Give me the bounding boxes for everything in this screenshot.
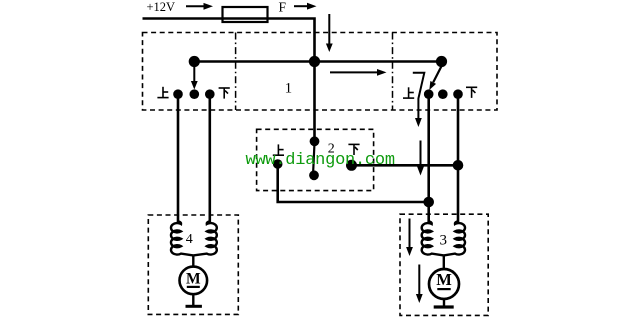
wire: left switch 下 contact down to coil: [209, 94, 212, 223]
wire: left switch 上 contact down to coil: [177, 94, 180, 223]
flow arrow A9 (down, in box 3): [416, 265, 423, 304]
label 上 (right switch): [403, 87, 414, 98]
switch 2 bottom contact: [309, 170, 319, 180]
switch 2 下 contact: [346, 160, 357, 171]
node: right pivot: [436, 56, 447, 67]
svg-text:F: F: [279, 0, 287, 14]
wire: switch 2 上 contact down then right to node (428.7,201.7): [278, 164, 429, 202]
coil left of motor 4: [171, 222, 193, 256]
coil left of motor 3: [422, 222, 444, 256]
flow arrow A7 (down, above box 3): [417, 141, 424, 176]
wire: right switch 下 contact down to coil: [457, 94, 460, 223]
svg-text:www.diangon.com: www.diangon.com: [246, 151, 395, 170]
motor M3: [429, 269, 459, 299]
label 上 (switch 2): [273, 144, 284, 155]
svg-text:M: M: [186, 271, 201, 288]
divider (dash-dot) left: [235, 33, 237, 111]
label 下 (left switch): [219, 88, 230, 99]
wire: right switch 上 contact down to coil: [427, 94, 430, 223]
wire: main bus at y=61.5: [194, 60, 441, 63]
ground (motor 3): [434, 305, 454, 308]
label 下 (right switch): [466, 87, 477, 98]
label 下 (switch 2): [348, 144, 359, 155]
svg-text:3: 3: [439, 233, 447, 249]
flow arrow A8 (down, in box 3): [406, 219, 413, 257]
svg-text:M: M: [436, 270, 452, 289]
wire: coil joint to motor 4: [192, 255, 194, 266]
switch 1 right contacts: [424, 89, 434, 99]
label 上 (left switch): [157, 87, 168, 98]
flow arrow A4 (rightwards under bus): [330, 69, 387, 76]
flow path "7" with arrow (through right switch): [413, 73, 425, 127]
fuse F: [223, 7, 268, 22]
motor M4: [180, 267, 208, 295]
flow arrow A1 (right of +12V): [186, 3, 213, 10]
ground (motor 4): [186, 305, 202, 308]
node B: center junction: [309, 56, 320, 67]
switch 2 top contact: [310, 136, 320, 146]
wire: motor 4 to ground: [192, 294, 194, 305]
divider (dash-dot) right: [392, 33, 394, 111]
flow arrow A3 (down, entering box 1): [326, 14, 333, 52]
switch 1 left: arrow from pivot to middle contact: [191, 66, 198, 90]
svg-text:4: 4: [186, 232, 193, 247]
wire: switch 2 下 contact right to node (458,165.3): [352, 164, 459, 167]
dashed box: motor 3: [400, 214, 488, 315]
wire: coil joint to motor 3: [443, 255, 445, 268]
node on right 下 wire: [453, 160, 464, 171]
coil right of motor 4: [193, 222, 217, 256]
flow arrow A2 (right of F): [294, 3, 317, 10]
svg-text:1: 1: [285, 81, 293, 97]
switch 2 blade: [313, 145, 314, 171]
switch 1 left contacts: [173, 89, 183, 99]
dashed box: switch assembly 1 (outer): [143, 33, 498, 111]
wire: motor 3 to ground: [443, 299, 445, 306]
dashed box: motor 4: [148, 215, 238, 314]
node on right 上 wire: [423, 197, 434, 208]
wire: +12V feed, top horizontal then down to node B: [143, 19, 315, 141]
coil right of motor 3: [444, 222, 465, 256]
switch 1 right: pivot arrow to 上 contact: [429, 67, 441, 91]
switch 2 上 contact: [273, 159, 283, 169]
dashed box: switch 2: [257, 129, 374, 190]
node: left pivot: [189, 56, 200, 67]
svg-text:+12V: +12V: [147, 0, 176, 14]
